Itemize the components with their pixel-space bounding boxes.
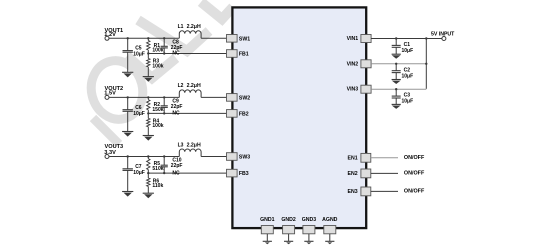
svg-text:VIN3: VIN3	[347, 87, 359, 93]
svg-text:2.2μH: 2.2μH	[187, 142, 201, 148]
wire VOUT rail	[109, 155, 179, 157]
ground	[143, 77, 154, 82]
capacitor C6 10uF	[123, 97, 145, 131]
pin EN3	[348, 187, 371, 196]
ground	[122, 192, 133, 197]
pin GND3	[302, 217, 317, 234]
svg-text:NC: NC	[172, 51, 180, 57]
svg-text:VIN1: VIN1	[347, 36, 359, 42]
svg-text:FB3: FB3	[239, 171, 249, 177]
svg-text:GND2: GND2	[281, 217, 296, 223]
wire pin to ground	[329, 234, 331, 242]
svg-text:NC: NC	[172, 111, 180, 117]
svg-text:ON/OFF: ON/OFF	[404, 171, 425, 177]
pin VIN2	[347, 60, 371, 68]
wire FB net	[147, 52, 227, 54]
pin FB2	[227, 110, 249, 118]
wire 5V input bus	[425, 37, 427, 89]
wire EN to ON/OFF	[371, 172, 398, 174]
node NC label	[172, 111, 180, 117]
svg-text:2.2μH: 2.2μH	[187, 83, 201, 89]
svg-text:EN1: EN1	[348, 155, 358, 161]
node VOUT2 terminal	[104, 86, 123, 100]
svg-text:L3: L3	[178, 142, 184, 148]
svg-text:EN2: EN2	[348, 171, 358, 177]
resistor R1 100k	[147, 38, 164, 53]
svg-text:ON/OFF: ON/OFF	[404, 189, 425, 195]
wire pin to ground	[266, 234, 268, 242]
pin EN1	[348, 153, 371, 162]
wire VOUT rail	[109, 96, 179, 98]
pin GND1	[260, 217, 275, 234]
capacitor C9 22pF	[161, 97, 183, 113]
svg-text:EN3: EN3	[348, 189, 358, 195]
wire VIN row	[371, 63, 426, 65]
svg-text:22pF: 22pF	[171, 104, 183, 110]
svg-text:AGND: AGND	[322, 217, 338, 223]
capacitor C7 10uF	[123, 157, 145, 192]
wire EN to ON/OFF	[371, 190, 398, 192]
node ON/OFF label	[404, 189, 425, 195]
svg-text:SW2: SW2	[239, 95, 250, 101]
svg-text:110k: 110k	[152, 183, 163, 189]
resistor R4 100k	[147, 113, 164, 135]
wire FB net	[147, 112, 227, 114]
inductor L2 2.2uH	[178, 83, 202, 97]
node NC label	[172, 51, 180, 57]
svg-text:L1: L1	[178, 24, 184, 30]
svg-text:2.2μH: 2.2μH	[187, 24, 201, 30]
capacitor C3 10uF	[392, 89, 413, 105]
pin SW1	[227, 35, 251, 43]
capacitor C5 10uF	[123, 38, 145, 72]
watermark	[85, 2, 233, 144]
pin SW3	[227, 153, 251, 161]
svg-text:VIN2: VIN2	[347, 61, 359, 67]
wire VIN row	[371, 88, 426, 90]
ground	[122, 132, 133, 137]
resistor R3 100k	[147, 54, 164, 77]
svg-text:FB1: FB1	[239, 52, 249, 58]
ground	[304, 241, 313, 244]
pin EN2	[348, 169, 371, 178]
pin SW2	[227, 94, 251, 102]
pin AGND	[322, 217, 338, 234]
pin VIN3	[347, 85, 371, 93]
svg-text:100k: 100k	[152, 48, 163, 54]
node ON/OFF label	[404, 155, 425, 161]
ground	[325, 241, 334, 244]
svg-text:10μF: 10μF	[133, 52, 145, 58]
IC U1 body	[232, 7, 366, 228]
svg-text:L2: L2	[178, 83, 184, 89]
svg-text:10μF: 10μF	[402, 73, 414, 79]
svg-text:FB2: FB2	[239, 111, 249, 117]
ground	[122, 72, 133, 77]
svg-text:10μF: 10μF	[402, 99, 414, 105]
wire SW to inductor	[201, 156, 227, 158]
wire VIN row	[371, 37, 442, 39]
svg-text:10μF: 10μF	[133, 170, 145, 176]
wire pin to ground	[288, 234, 290, 242]
node 5V INPUT terminal	[431, 31, 455, 40]
svg-text:10μF: 10μF	[402, 48, 414, 54]
ground	[143, 136, 154, 141]
inductor L3 2.2uH	[178, 142, 202, 156]
svg-text:SW3: SW3	[239, 155, 250, 161]
wire EN to ON/OFF	[371, 157, 398, 159]
svg-text:22pF: 22pF	[171, 163, 183, 169]
capacitor C8 22pF	[161, 38, 183, 53]
pin FB1	[227, 50, 249, 58]
svg-text:NC: NC	[172, 170, 180, 176]
pin GND2	[281, 217, 296, 234]
resistor R5 510k	[147, 157, 164, 174]
ground	[392, 104, 401, 109]
svg-text:100k: 100k	[152, 63, 163, 69]
svg-text:GND1: GND1	[260, 217, 275, 223]
node ON/OFF label	[404, 171, 425, 177]
wire FB net	[147, 172, 227, 174]
wire SW to inductor	[201, 96, 227, 98]
inductor L1 2.2uH	[178, 24, 202, 38]
resistor R6 110k	[147, 173, 164, 193]
svg-text:ON/OFF: ON/OFF	[404, 155, 425, 161]
ground	[263, 241, 272, 244]
node NC label	[172, 170, 180, 176]
svg-text:GND3: GND3	[302, 217, 317, 223]
svg-text:10μF: 10μF	[133, 111, 145, 117]
svg-text:100k: 100k	[152, 123, 163, 129]
pin FB3	[227, 169, 249, 177]
capacitor C2 10uF	[392, 64, 413, 80]
capacitor C1 10uF	[392, 39, 413, 55]
wire SW to inductor	[201, 37, 227, 39]
wire VOUT rail	[109, 37, 179, 39]
resistor R2 150k	[147, 97, 164, 113]
pin VIN1	[347, 35, 371, 43]
capacitor C10 22pF	[161, 157, 183, 174]
node VOUT3 terminal	[104, 144, 123, 158]
wire pin to ground	[308, 234, 310, 242]
ground	[392, 54, 401, 59]
ground	[143, 193, 154, 198]
node VOUT1 terminal	[104, 28, 123, 41]
svg-text:SW1: SW1	[239, 36, 250, 42]
ground	[284, 241, 293, 244]
ground	[392, 80, 401, 85]
